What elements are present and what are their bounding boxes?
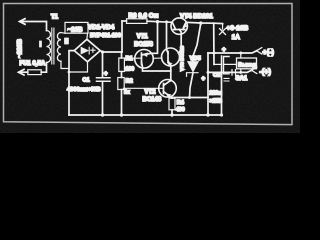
wire secondary top to ~16V box xyxy=(61,32,65,35)
wire box to bridge top vertex xyxy=(86,33,89,39)
svg-text:+0-16В: +0-16В xyxy=(227,25,249,32)
svg-text:R3 0,6 Ом: R3 0,6 Ом xyxy=(129,12,159,19)
wire secondary bottom to minus column xyxy=(61,61,69,68)
svg-text:FU1 0,5A: FU1 0,5A xyxy=(20,61,46,67)
wire output column to bottom rail xyxy=(207,53,209,115)
svg-text:~16В: ~16В xyxy=(68,26,83,33)
top rail to VT4 xyxy=(147,21,172,22)
svg-text:1к: 1к xyxy=(124,90,130,96)
svg-text:+: + xyxy=(104,72,108,78)
svg-text:VT1: VT1 xyxy=(137,34,149,40)
emitter bus horizontal to C2 column xyxy=(172,97,208,99)
transformer primary winding I xyxy=(47,31,51,63)
svg-text:+: + xyxy=(202,75,206,82)
svg-text:VT2: VT2 xyxy=(145,90,157,96)
transistor VT1 xyxy=(135,50,154,69)
svg-text:BC158: BC158 xyxy=(134,42,153,48)
upper terminal arrow xyxy=(257,48,262,54)
SA1 dashes xyxy=(224,78,229,81)
resistor R3 xyxy=(127,19,148,24)
lower output wire xyxy=(208,70,252,72)
svg-text:+: + xyxy=(222,47,226,54)
svg-text:+(-): +(-) xyxy=(263,48,275,57)
output connector box xyxy=(237,58,257,69)
svg-text:-(+): -(+) xyxy=(260,67,272,76)
svg-text:R4: R4 xyxy=(177,100,185,106)
svg-text:BC148: BC148 xyxy=(143,97,162,103)
svg-text:×25В: ×25В xyxy=(210,99,223,105)
svg-text:SA1: SA1 xyxy=(236,76,248,82)
wire plus node down to C1 xyxy=(102,52,104,77)
svg-text:R2: R2 xyxy=(126,79,133,85)
svg-text:4000мк×40В: 4000мк×40В xyxy=(67,87,100,93)
transistor VT4 xyxy=(171,18,187,34)
wire lower output to bottom rail xyxy=(221,72,223,115)
svg-text:100: 100 xyxy=(126,66,135,72)
wire R3 junction up to rail xyxy=(121,21,123,52)
top rail right of VT4 xyxy=(186,22,223,23)
capacitor C2 xyxy=(221,56,223,74)
svg-text:II: II xyxy=(65,39,69,46)
mains input arrow top xyxy=(20,22,47,31)
svg-text:VT4 BD201: VT4 BD201 xyxy=(180,13,213,20)
wire bridge bottom vertex down and left xyxy=(69,62,88,72)
svg-text:~220В: ~220В xyxy=(17,39,24,58)
SA1 contact ticks xyxy=(232,70,236,76)
top rail left stub xyxy=(122,20,127,22)
svg-text:Выход: Выход xyxy=(238,62,257,68)
stub box top to upper wire xyxy=(240,53,242,58)
resistor R1 xyxy=(119,58,125,72)
wire bridge right vertex to plus node xyxy=(100,51,122,52)
border frame xyxy=(4,4,293,125)
upper output wire xyxy=(208,51,257,53)
transistor VT3 xyxy=(162,48,180,66)
svg-text:1А: 1А xyxy=(232,34,241,41)
wire VT1 to VT3 base xyxy=(153,57,162,59)
resistor R2 xyxy=(118,78,124,90)
svg-text:C1: C1 xyxy=(83,78,90,84)
stub box bottom to lower wire xyxy=(240,69,242,73)
svg-text:T1: T1 xyxy=(51,15,59,21)
transformer secondary winding II xyxy=(57,33,61,62)
svg-text:VD1-VD4: VD1-VD4 xyxy=(88,24,115,31)
wire down to R1 xyxy=(121,52,123,58)
boxed label ~16V xyxy=(65,22,88,33)
diode symbol inside bridge xyxy=(81,47,88,54)
bridge rectifier VD1-VD4 xyxy=(74,39,100,62)
svg-text:220м: 220м xyxy=(210,91,223,97)
svg-text:BYP401-100: BYP401-100 xyxy=(90,33,121,39)
svg-text:430: 430 xyxy=(176,107,185,113)
bottom rail xyxy=(69,114,222,116)
lower terminal arrow xyxy=(252,67,257,73)
transistor VT2 xyxy=(159,80,177,98)
capacitor C1 xyxy=(97,78,111,82)
svg-text:C2: C2 xyxy=(213,73,220,79)
svg-text:VD5: VD5 xyxy=(190,56,201,62)
fuse FU1 xyxy=(19,71,28,73)
wire bridge left vertex to minus column xyxy=(69,51,74,115)
zener VD5 column xyxy=(193,23,201,61)
probe stub and X mark xyxy=(222,24,224,29)
junction dots xyxy=(68,20,243,117)
svg-text:I: I xyxy=(40,42,42,49)
resistor R4 xyxy=(169,98,175,110)
wire rail down to C2 xyxy=(213,23,215,64)
transformer core xyxy=(52,28,54,64)
